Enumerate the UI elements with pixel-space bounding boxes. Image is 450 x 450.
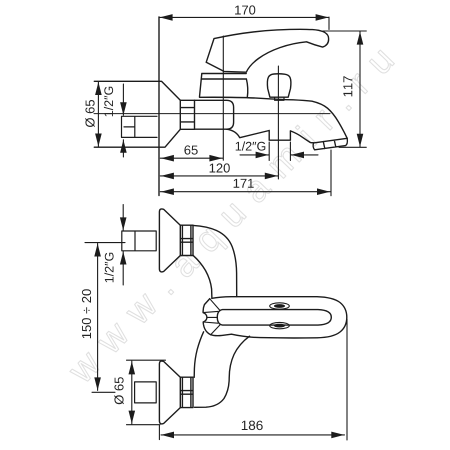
escutcheon cone (front view) <box>94 81 180 147</box>
horizontal centerline <box>94 113 330 115</box>
dimension 1/2"G (front left) <box>120 84 127 157</box>
dimension 170 <box>159 14 329 29</box>
bottom escutcheon (plan) <box>159 361 180 424</box>
body outline upper-left S-curve <box>193 255 212 298</box>
watermark www.aquamir.ru <box>65 45 400 390</box>
bottom hex nut (plan) <box>180 377 193 407</box>
dimension 120 <box>160 173 278 180</box>
handle lever <box>206 29 328 72</box>
dimension Ø65 (plan) <box>127 360 166 425</box>
oval detail upper <box>270 303 290 309</box>
hex nut (front view) <box>180 100 194 129</box>
oval detail lower <box>270 322 290 328</box>
cartridge cap <box>200 74 248 98</box>
body outline lower-left S-curve <box>194 332 203 378</box>
dimension 150÷20 <box>85 243 125 393</box>
body centerline vertical <box>222 36 224 160</box>
spout bar (plan) <box>212 297 347 338</box>
dimension 65 <box>160 155 223 162</box>
dimension 171 <box>160 150 331 196</box>
body outline lower-right S-curve <box>195 336 250 407</box>
top escutcheon (plan) <box>159 209 180 272</box>
dimension 1/2"G (outlet) <box>240 142 318 161</box>
knob facets <box>203 299 220 335</box>
wall line <box>158 17 160 196</box>
outlet centerline vertical <box>277 66 279 179</box>
top supply pipe (plan) <box>122 231 156 251</box>
dimension Ø65 (front) <box>95 82 102 147</box>
spout underside and outlet stub <box>227 129 314 143</box>
handle knob (plan) <box>203 299 231 336</box>
body seam and spout top curve <box>200 97 348 138</box>
lever bar (plan) <box>217 310 331 326</box>
supply pipe (front view) <box>122 116 158 137</box>
knob collar <box>275 97 284 100</box>
aerator <box>313 138 347 150</box>
valve body boss <box>195 100 234 129</box>
top hex nut (plan) <box>180 225 193 255</box>
dimension 186 <box>159 319 347 440</box>
dimension 1/2"G (plan) <box>120 205 127 286</box>
bottom supply pipe (plan) <box>135 382 157 403</box>
diverter knob (front view) <box>267 74 291 97</box>
dimension 117 <box>323 31 367 147</box>
body outline upper-right S-curve <box>193 225 237 296</box>
